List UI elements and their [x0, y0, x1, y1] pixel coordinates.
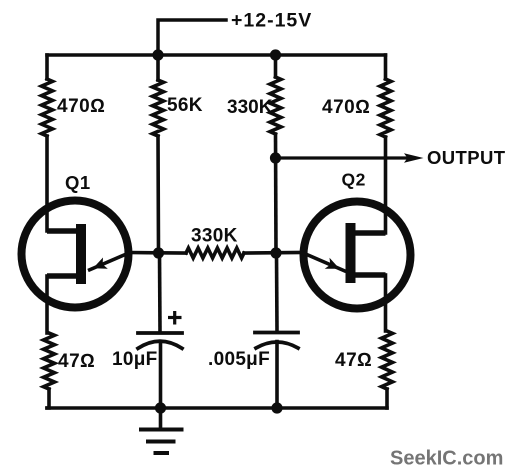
svg-text:Q2: Q2 [342, 170, 366, 190]
svg-text:47Ω: 47Ω [58, 351, 95, 372]
svg-text:Q1: Q1 [65, 172, 91, 193]
wire col2 middle [156, 136, 160, 253]
wire col3 upper [274, 55, 278, 77]
svg-text:330K: 330K [191, 226, 238, 247]
wire col3 to C2 [275, 253, 279, 330]
wire col2 to C1 [158, 253, 162, 330]
transistor Q2 [301, 202, 411, 309]
wire right rail to Q2 collector [384, 137, 388, 233]
wire left rail bottom [47, 389, 49, 408]
svg-text:330K: 330K [227, 97, 273, 118]
svg-text:+12-15V: +12-15V [231, 10, 312, 32]
resistor R5 47ohm left [44, 333, 55, 389]
capacitor C2 .005uF plates [255, 333, 298, 349]
resistor R7 330K coupling [186, 248, 244, 258]
node junction dots [152, 49, 282, 413]
svg-text:10μF: 10μF [112, 349, 158, 370]
wire left rail upper [45, 55, 49, 79]
resistor R1 470ohm left [42, 79, 53, 136]
resistor R6 47ohm right [382, 331, 393, 389]
ground symbol [139, 430, 184, 454]
svg-text:.005μF: .005μF [208, 349, 270, 370]
wire top rail [47, 53, 386, 57]
label C1 polarity plus [168, 311, 182, 325]
wire coupling line left [130, 251, 186, 255]
resistor R3 330K top [270, 77, 281, 134]
svg-text:470Ω: 470Ω [322, 97, 370, 118]
svg-text:OUTPUT: OUTPUT [427, 147, 506, 168]
svg-text:470Ω: 470Ω [57, 96, 105, 117]
wire coupling line right [244, 251, 302, 255]
wire right rail Q2 emitter down [384, 275, 388, 331]
svg-text:47Ω: 47Ω [335, 350, 372, 371]
wire col3 below C2 [275, 342, 279, 409]
resistor R4 470ohm right [380, 79, 391, 137]
svg-text:56K: 56K [167, 95, 203, 116]
wire left rail to Q1 collector [45, 136, 49, 231]
wire right rail upper [384, 55, 388, 79]
wire col2 below C1 [159, 342, 163, 408]
wire output line [276, 156, 408, 159]
wire col3 middle [274, 134, 278, 253]
output arrowhead [404, 153, 424, 163]
wire left rail Q1 emitter down [45, 276, 49, 333]
resistor R2 56K [153, 80, 164, 136]
svg-text:SeekIC.com: SeekIC.com [390, 448, 503, 470]
wire supply tap [158, 20, 226, 55]
transistor Q1 [22, 201, 132, 308]
ground stub [159, 408, 163, 428]
wire bottom rail [47, 406, 387, 410]
wire right rail bottom [385, 389, 389, 408]
capacitor C1 10uF plates [138, 333, 182, 348]
wire col2 upper [156, 55, 160, 80]
